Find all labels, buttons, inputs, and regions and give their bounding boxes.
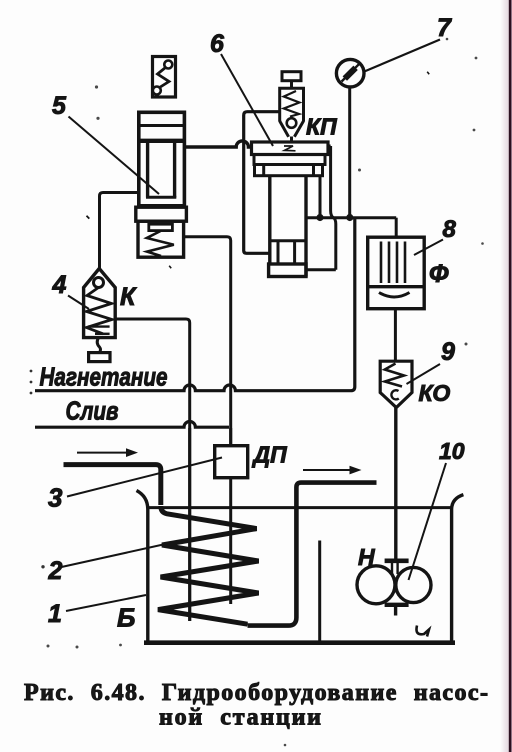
tank outline [137,491,464,644]
tiny dash specks [427,72,429,74]
valve 6: pilot pipe (left riser to KP) [244,112,280,254]
cylinder 5 spring box [138,221,184,257]
svg-text:1: 1 [48,600,62,628]
svg-text:Рис. 6.48. Гидрооборудование н: Рис. 6.48. Гидрооборудование насос- [24,680,488,706]
seat squiggle z [284,146,296,151]
heating coil (component 2) [158,506,259,624]
valve K (component 4) [84,269,116,362]
filter inlet pipe [395,218,398,238]
valve 6 top plate [252,142,329,155]
junction dot A [316,214,323,221]
svg-text:КО: КО [419,380,451,406]
valve6 right piping: riser with S-jog [331,146,336,270]
svg-text:2: 2 [48,557,63,585]
pointer line 9 [407,364,441,384]
svg-text:К: К [120,283,137,311]
return pipe over tank + down to coil bottom [248,483,377,626]
nagnetanie line with hops, corner up to junction [35,219,355,391]
sliv line with hop [35,422,229,428]
svg-text:5: 5 [52,92,67,120]
pipe spring-box to DP line [185,237,231,445]
margin dots [30,370,33,395]
svg-text:Н: Н [358,544,375,570]
valve 6 third row with tabs [255,165,323,176]
short link top rect to riser [328,145,331,148]
junction horizontal line [306,216,396,219]
drain pipe into tank [64,465,161,505]
pump N (component 10) [357,561,431,616]
valve 6 bottom rect [269,264,306,277]
check valve KO (component 9) [380,361,412,407]
small hook mark in tank [416,626,429,637]
pointer line 10 [409,463,447,580]
KO outlet pipe to pump [394,408,397,560]
pipe K valve to down line [115,319,190,621]
second arrow [303,466,362,475]
svg-text:6: 6 [210,30,225,58]
pipe cylinder5 to K valve [100,193,138,270]
solenoid box symbol [153,57,176,98]
svg-text:Слив: Слив [66,396,119,426]
filter outlet pipe [394,309,397,362]
gauge (manometer 7) [336,59,364,216]
pointer line 4 [68,296,89,310]
svg-text:Б: Б [117,603,135,633]
pointer line 7 [364,40,440,72]
pointer line 2 [62,543,171,567]
pipe cylinder5 to valve6 (with hop over KP pipe) [186,141,252,147]
svg-text:ДП: ДП [252,442,288,468]
svg-text:ной станции: ной станции [159,705,321,731]
DP box (component 3) [215,428,248,604]
svg-text:Нагнетание: Нагнетание [40,362,168,392]
svg-text:3: 3 [48,483,63,513]
filter F (component 8) [368,237,425,309]
valve KP (pilot relief) [280,72,304,144]
svg-text:9: 9 [441,338,455,366]
cylinder 5 lower flange [136,207,187,221]
svg-text:10: 10 [439,438,465,464]
pointer line 5 [69,117,160,195]
pointer line 6 [221,54,273,146]
valve 6 plunger [270,176,306,277]
svg-text:КП: КП [306,114,337,140]
valve6 right port riser [319,176,322,218]
svg-text:4: 4 [52,271,67,299]
svg-text:7: 7 [437,14,452,42]
cylinder 5 body [137,112,186,206]
svg-text:Ф: Ф [429,260,449,288]
pointer line 8 [414,240,443,256]
first arrow [77,448,138,457]
pointer line 1 [66,595,146,611]
pointer line 3 [67,458,222,497]
dot before 2 [41,565,44,568]
coil feed pipe continuation into tank [188,428,191,621]
valve 6 second plate [254,155,325,165]
junction dot B [346,214,353,221]
tank baffle [318,541,321,642]
link bottom rect to riser [306,268,336,271]
svg-text:8: 8 [443,216,457,243]
